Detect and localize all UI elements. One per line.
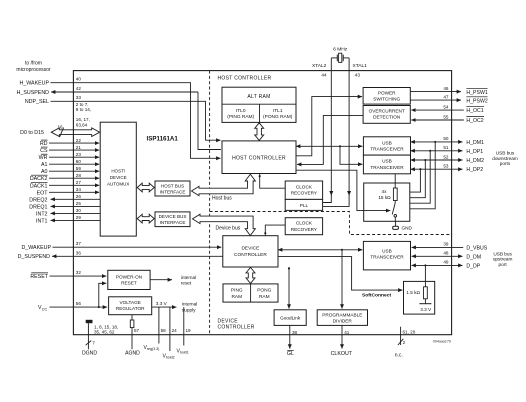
svg-text:ITL1: ITL1	[273, 108, 283, 114]
svg-text:NDP_SEL: NDP_SEL	[25, 99, 49, 105]
svg-text:44: 44	[321, 72, 327, 77]
svg-text:RECOVERY: RECOVERY	[291, 191, 318, 196]
svg-text:46: 46	[443, 86, 449, 91]
svg-text:H_PSW1: H_PSW1	[466, 90, 487, 96]
svg-text:EOT: EOT	[37, 190, 49, 196]
svg-text:59: 59	[76, 166, 82, 171]
svg-text:43: 43	[355, 72, 361, 77]
svg-text:PING: PING	[231, 288, 243, 294]
svg-text:CS: CS	[40, 148, 48, 154]
svg-text:RESET: RESET	[30, 274, 48, 280]
svg-text:DGND: DGND	[82, 351, 97, 357]
svg-text:54: 54	[443, 105, 449, 110]
svg-text:reg(3.3): reg(3.3)	[147, 347, 160, 351]
svg-text:INTERFACE: INTERFACE	[160, 190, 186, 195]
svg-text:AUTOMUX: AUTOMUX	[107, 182, 129, 187]
svg-text:58: 58	[161, 328, 167, 333]
svg-text:57: 57	[134, 328, 140, 333]
svg-text:n.c.: n.c.	[395, 352, 403, 358]
svg-text:CLOCK: CLOCK	[296, 184, 313, 189]
svg-text:hold1: hold1	[180, 350, 189, 354]
svg-text:SoftConnect: SoftConnect	[362, 293, 391, 299]
svg-text:internal: internal	[181, 275, 196, 280]
svg-text:50: 50	[443, 136, 449, 141]
svg-text:REGULATOR: REGULATOR	[116, 306, 145, 311]
svg-text:1.5 kΩ: 1.5 kΩ	[406, 290, 420, 295]
svg-text:CC: CC	[42, 307, 48, 311]
svg-text:H_DM1: H_DM1	[466, 140, 484, 146]
svg-text:GoodLink: GoodLink	[280, 316, 301, 321]
svg-text:48: 48	[443, 251, 449, 256]
svg-text:39: 39	[443, 242, 449, 247]
svg-text:52: 52	[443, 154, 449, 159]
svg-text:ports: ports	[500, 161, 511, 166]
svg-text:POWER-ON: POWER-ON	[116, 274, 142, 279]
svg-text:hold2: hold2	[166, 355, 175, 359]
svg-text:CONTROLLER: CONTROLLER	[234, 252, 267, 258]
svg-text:DACK2: DACK2	[30, 176, 48, 182]
svg-text:HOST BUS: HOST BUS	[161, 184, 184, 189]
svg-text:RD: RD	[40, 141, 48, 147]
svg-text:ALT RAM: ALT RAM	[247, 94, 270, 100]
svg-text:53: 53	[443, 164, 449, 169]
svg-text:AGND: AGND	[125, 351, 140, 357]
svg-text:42: 42	[76, 86, 82, 91]
svg-text:16: 16	[58, 125, 64, 130]
svg-text:CONTROLLER: CONTROLLER	[218, 325, 255, 331]
svg-text:H_OC2: H_OC2	[466, 118, 483, 124]
svg-text:TRANSCEIVER: TRANSCEIVER	[370, 165, 404, 170]
svg-text:RESET: RESET	[121, 281, 137, 286]
svg-text:GND: GND	[402, 226, 413, 231]
svg-text:SWITCHING: SWITCHING	[373, 97, 400, 102]
svg-text:H_PSW2: H_PSW2	[466, 98, 487, 104]
svg-text:USB: USB	[382, 140, 392, 145]
svg-text:USB: USB	[382, 159, 392, 164]
svg-text:D_SUSPEND: D_SUSPEND	[18, 254, 51, 260]
svg-text:INT1: INT1	[36, 218, 48, 224]
svg-text:XTAL1: XTAL1	[353, 63, 368, 69]
svg-text:35, 45, 62: 35, 45, 62	[94, 330, 115, 335]
svg-text:H_WAKEUP: H_WAKEUP	[19, 81, 49, 87]
svg-text:upstream: upstream	[493, 257, 513, 262]
svg-text:(PONG RAM): (PONG RAM)	[263, 114, 293, 120]
svg-text:TRANSCEIVER: TRANSCEIVER	[370, 147, 404, 152]
svg-text:25: 25	[76, 201, 82, 206]
svg-text:USB bus: USB bus	[496, 151, 515, 156]
svg-text:24: 24	[172, 328, 178, 333]
svg-text:D_DM: D_DM	[466, 254, 481, 260]
svg-text:DIVIDER: DIVIDER	[333, 319, 353, 324]
svg-text:9 to 14,: 9 to 14,	[76, 107, 91, 112]
svg-text:USB: USB	[382, 248, 392, 253]
svg-text:3.3 V: 3.3 V	[420, 307, 432, 312]
svg-text:36: 36	[76, 250, 82, 255]
svg-text:RAM: RAM	[259, 294, 270, 300]
svg-text:A1: A1	[41, 162, 48, 168]
svg-text:PLL: PLL	[300, 203, 309, 208]
svg-text:28: 28	[76, 173, 82, 178]
svg-text:33: 33	[76, 95, 82, 100]
svg-text:Device bus: Device bus	[216, 226, 241, 232]
svg-text:downstream: downstream	[492, 156, 518, 161]
svg-text:PROGRAMMABLE: PROGRAMMABLE	[322, 313, 362, 318]
svg-text:DEVICE: DEVICE	[241, 245, 259, 251]
svg-text:D_WAKEUP: D_WAKEUP	[21, 245, 51, 251]
svg-text:ITL0: ITL0	[236, 108, 246, 114]
svg-text:HOST CONTROLLER: HOST CONTROLLER	[232, 156, 286, 162]
svg-text:40: 40	[76, 77, 82, 82]
svg-text:INTERFACE: INTERFACE	[160, 220, 186, 225]
svg-text:TRANSCEIVER: TRANSCEIVER	[370, 255, 404, 260]
svg-text:PONG: PONG	[257, 288, 271, 294]
svg-text:H_OC1: H_OC1	[466, 108, 483, 114]
svg-text:63,64: 63,64	[76, 122, 88, 127]
svg-text:49: 49	[443, 260, 449, 265]
svg-text:to /from: to /from	[25, 61, 42, 67]
svg-text:OVERCURRENT: OVERCURRENT	[369, 108, 405, 113]
svg-text:H_DP1: H_DP1	[466, 149, 483, 155]
svg-text:(PING RAM): (PING RAM)	[227, 114, 254, 120]
svg-text:reset: reset	[181, 281, 192, 286]
svg-text:USB bus: USB bus	[493, 251, 512, 256]
svg-text:DETECTION: DETECTION	[373, 115, 400, 120]
svg-text:POWER: POWER	[378, 90, 396, 95]
svg-text:41: 41	[344, 330, 350, 335]
svg-text:DEVICE BUS: DEVICE BUS	[159, 214, 187, 219]
svg-text:2: 2	[403, 340, 406, 345]
svg-text:47: 47	[443, 95, 449, 100]
svg-text:D0 to D15: D0 to D15	[20, 130, 44, 136]
svg-text:15 kΩ: 15 kΩ	[378, 195, 391, 200]
svg-text:WR: WR	[39, 155, 48, 161]
svg-text:D_VBUS: D_VBUS	[466, 245, 487, 251]
svg-text:VOLTAGE: VOLTAGE	[119, 300, 140, 305]
svg-text:4x: 4x	[382, 189, 388, 194]
svg-text:DREQ1: DREQ1	[29, 204, 47, 210]
svg-text:H_DP2: H_DP2	[466, 167, 483, 173]
svg-text:26: 26	[76, 194, 82, 199]
svg-text:7: 7	[92, 341, 95, 346]
svg-text:23: 23	[76, 152, 82, 157]
svg-text:30: 30	[76, 208, 82, 213]
svg-text:DEVICE: DEVICE	[110, 175, 127, 180]
svg-text:DACK1: DACK1	[30, 183, 48, 189]
svg-text:DEVICE: DEVICE	[218, 319, 239, 325]
svg-text:RAM: RAM	[231, 294, 242, 300]
svg-text:A0: A0	[41, 169, 48, 175]
svg-text:port: port	[499, 262, 508, 267]
svg-text:DREQ2: DREQ2	[29, 197, 47, 203]
svg-text:internal: internal	[182, 302, 197, 307]
svg-text:19: 19	[186, 328, 192, 333]
svg-text:22: 22	[76, 138, 82, 143]
svg-text:CLOCK: CLOCK	[296, 221, 313, 226]
svg-text:CLKOUT: CLKOUT	[331, 351, 353, 357]
svg-text:29: 29	[76, 215, 82, 220]
svg-text:56: 56	[76, 301, 82, 306]
svg-text:INT2: INT2	[36, 211, 48, 217]
svg-text:34: 34	[76, 187, 82, 192]
svg-text:Host bus: Host bus	[212, 195, 232, 201]
svg-text:61, 20: 61, 20	[403, 329, 416, 334]
svg-text:60: 60	[76, 159, 82, 164]
svg-text:37: 37	[76, 241, 82, 246]
svg-text:XTAL2: XTAL2	[312, 63, 327, 69]
svg-text:H_SUSPEND: H_SUSPEND	[17, 90, 50, 96]
svg-text:3.3 V: 3.3 V	[156, 301, 168, 306]
svg-text:38: 38	[292, 330, 298, 335]
svg-text:HOST/: HOST/	[111, 169, 126, 174]
svg-text:6 MHz: 6 MHz	[333, 47, 348, 53]
svg-text:RECOVERY: RECOVERY	[291, 227, 318, 232]
svg-text:microprocessor: microprocessor	[16, 67, 51, 73]
svg-text:004aaa179: 004aaa179	[433, 340, 451, 344]
svg-text:D_DP: D_DP	[466, 263, 480, 269]
svg-text:ISP1161A1: ISP1161A1	[147, 135, 179, 142]
svg-text:GL: GL	[287, 351, 294, 357]
svg-text:HOST CONTROLLER: HOST CONTROLLER	[218, 75, 272, 81]
svg-text:27: 27	[76, 180, 82, 185]
svg-text:H_DM2: H_DM2	[466, 158, 484, 164]
svg-text:32: 32	[76, 270, 82, 275]
svg-text:51: 51	[443, 145, 449, 150]
svg-text:55: 55	[443, 114, 449, 119]
svg-text:21: 21	[76, 145, 82, 150]
